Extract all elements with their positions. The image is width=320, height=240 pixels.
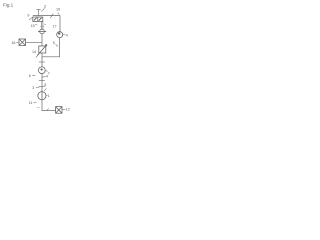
svg-text:4: 4 [46,74,48,78]
tank box T1 (crossed box, left) [19,39,26,46]
wire: check valve to throttle box [41,34,43,46]
leader from label 2 [41,8,44,12]
leader dash label 16 [16,41,18,43]
leader dash label 10 [58,13,60,15]
svg-text:5: 5 [53,41,55,45]
label 1 [46,94,47,96]
leader dash label 11 [33,102,36,104]
leader label 5 [56,44,58,46]
leader arrow label 14 [36,54,39,58]
leader dash label 6 [32,75,35,77]
directional valve V1 [33,17,43,21]
wire: left box to main line [26,41,43,43]
svg-text:12: 12 [66,108,70,112]
label 7 [45,70,47,72]
svg-text:16: 16 [11,41,15,45]
svg-text:Fig.1: Fig.1 [3,2,14,7]
port tick at y86.3 [39,85,45,87]
wire: valve bottom twin stubs to check valve [41,21,43,29]
leader dash right of stubs [44,23,46,26]
wire: bottom horizontal to tank [42,110,56,112]
leader slant right of line [44,88,46,91]
leader for label 9 [29,17,32,20]
vent stub above valve V1 [37,10,41,16]
tick on bottom line [47,108,49,110]
label 4 right of accumulator [63,34,65,36]
label 12 [62,109,65,111]
port tick at y62 [39,61,45,63]
check valve C1 (circle with cross line) [38,29,46,34]
svg-text:14: 14 [32,50,36,54]
port tick under valve [40,26,45,28]
svg-text:7: 7 [48,72,50,76]
accumulator A1 (circle with inner dot) [57,32,63,38]
svg-text:9: 9 [27,14,29,18]
arrow tick on top line [50,14,53,18]
svg-text:1: 1 [48,94,50,98]
wire: pump down to bottom line [41,100,43,111]
pump P1 (circle with vertical diameter) [38,92,46,100]
svg-text:4: 4 [66,33,68,37]
wire: right branch down and left to main line [42,38,60,57]
branch dash at y77 [42,75,46,78]
throttle valve R1 (box with diagonal arrow) [37,45,47,56]
svg-text:17: 17 [53,24,57,28]
wire: right branch vertical down from top line [59,16,61,32]
svg-text:11: 11 [29,101,33,105]
flow meter G1 (circle with dot) [38,67,45,74]
svg-text:3: 3 [32,86,34,90]
tank box T2 (crossed box, bottom right) [56,107,62,114]
svg-text:6: 6 [29,74,31,78]
svg-text:10: 10 [56,7,60,11]
wire: top supply line [33,15,60,17]
faint dash left of bottom corner [37,107,40,109]
port tick at y80.7 [39,80,45,82]
leader dash label 3 [36,87,39,89]
leader dash label 15 [35,24,37,26]
wire: meter to pump [41,73,43,91]
svg-text:15: 15 [31,24,35,28]
wire: throttle bottom to meter [41,53,43,67]
